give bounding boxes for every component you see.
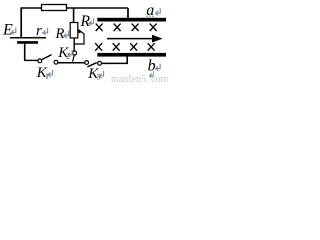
grammar dots under watermark mark <box>150 76 154 78</box>
svg-text:R: R <box>80 13 91 30</box>
return mark after a <box>156 8 161 15</box>
switch K3 terminal circle right <box>98 61 102 65</box>
svg-text:manfen5. com: manfen5. com <box>111 74 168 83</box>
field cross row2 c3 <box>130 43 137 51</box>
switch K2 lever stub <box>73 55 75 61</box>
field cross row1 c1 <box>96 24 103 31</box>
velocity arrow <box>107 38 153 40</box>
wire top horizontal from battery to rails <box>21 7 128 9</box>
wire bottom to switch K1 <box>24 59 38 61</box>
return mark after K2 <box>68 50 72 57</box>
switch K2 branch terminal circle <box>73 51 77 55</box>
rail bottom (thick) <box>97 53 166 57</box>
watermark return mark <box>150 71 154 77</box>
wire rheostat box bottom to K2 circle <box>73 38 75 51</box>
return mark after K1 <box>48 70 53 77</box>
rail top (thick) <box>97 18 166 22</box>
resistor R1 box on top wire <box>42 5 67 11</box>
switch K3 lever <box>87 63 96 67</box>
wire battery bottom vertical <box>24 44 26 61</box>
return mark after E <box>11 28 16 35</box>
return mark after R left <box>64 31 69 38</box>
battery E short thick plate <box>17 41 38 44</box>
rheostat wiper arrow <box>74 30 84 44</box>
wire right vertical to top rail <box>127 8 129 19</box>
switch K1 terminal circle right <box>54 60 58 64</box>
field cross row1 c2 <box>114 24 121 31</box>
svg-text:R: R <box>55 26 65 42</box>
return mark after K3 <box>99 71 104 78</box>
switch K1 terminal circle left <box>38 59 42 63</box>
field cross row2 c4 <box>148 43 155 51</box>
return mark after b <box>156 64 161 71</box>
rheostat R box <box>70 23 78 39</box>
return mark after r <box>43 28 48 35</box>
svg-text:b: b <box>148 58 156 75</box>
switch K1 lever <box>42 55 52 60</box>
field cross row1 c3 <box>132 24 139 31</box>
wire left vertical battery top <box>20 8 22 38</box>
field cross row1 c4 <box>150 24 157 31</box>
return mark after R right <box>89 18 94 25</box>
grammar dots under a <box>147 15 154 17</box>
grammar dots under r <box>34 36 41 38</box>
switch K3 terminal circle left <box>85 61 89 65</box>
rheostat R branch vertical from top wire <box>73 8 75 23</box>
svg-text:E: E <box>2 21 13 38</box>
wire between K1 and K2 contact <box>58 62 84 64</box>
battery E long plate <box>10 37 46 39</box>
field cross row2 c1 <box>95 43 102 51</box>
field cross row2 c2 <box>113 43 120 51</box>
wire K3 to bottom rail <box>102 62 128 64</box>
wire vertical up to bottom rail <box>126 56 128 64</box>
